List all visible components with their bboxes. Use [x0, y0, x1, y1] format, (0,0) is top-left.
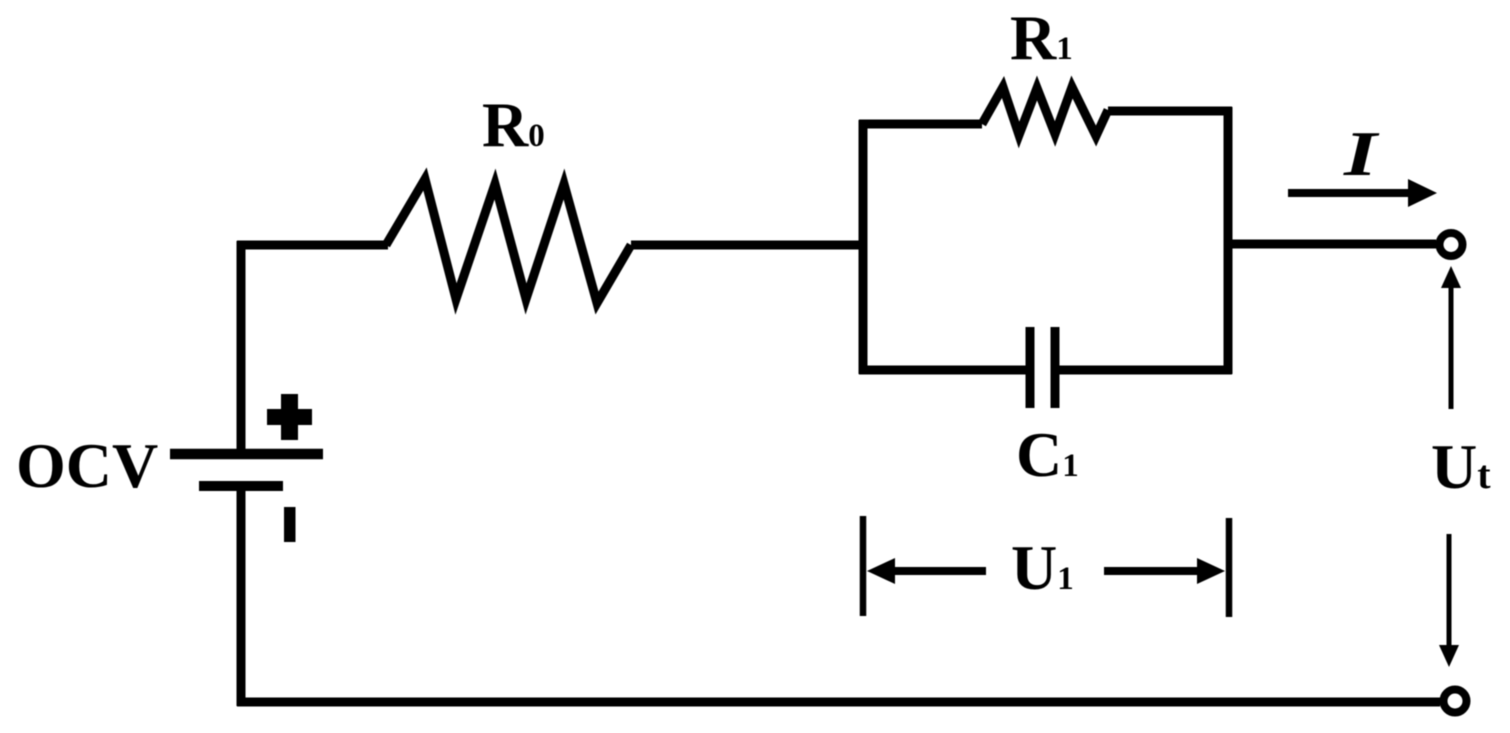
wire battery bottom vertical	[237, 484, 246, 706]
svg-text:OCV: OCV	[16, 430, 158, 501]
dimension arrow left U1	[867, 558, 986, 584]
wire RC box left vertical	[859, 120, 868, 374]
wire bottom horizontal to negative terminal	[237, 698, 1440, 707]
current arrow	[1288, 179, 1437, 207]
capacitor C1	[1030, 327, 1055, 408]
voltage source OCV battery plates	[170, 454, 323, 486]
dimension arrow right U1	[1104, 558, 1225, 584]
voltage arrow Ut lower (pointing down)	[1439, 534, 1459, 667]
wire battery top vertical	[237, 241, 246, 455]
resistor R0	[386, 179, 631, 303]
wire output to positive terminal	[1224, 240, 1436, 249]
plus polarity mark	[267, 394, 312, 440]
wire RC box bottom-left horizontal	[859, 366, 1028, 375]
terminal negative	[1444, 690, 1467, 713]
wire RC box top-right horizontal	[1108, 107, 1232, 116]
wire RC box top-left horizontal	[859, 120, 982, 129]
wire RC box right vertical	[1224, 107, 1233, 374]
wire RC box bottom-right horizontal	[1057, 366, 1232, 375]
terminal positive	[1440, 233, 1463, 256]
dimension tick left U1	[860, 516, 867, 616]
dimension tick right U1	[1226, 518, 1233, 617]
wire R0 to RC box	[631, 241, 863, 250]
voltage arrow Ut upper (pointing up)	[1441, 266, 1461, 409]
svg-text:I: I	[1343, 118, 1380, 189]
resistor R1	[982, 87, 1108, 136]
minus polarity mark	[284, 507, 296, 542]
wire top-left horizontal to R0	[237, 241, 388, 250]
